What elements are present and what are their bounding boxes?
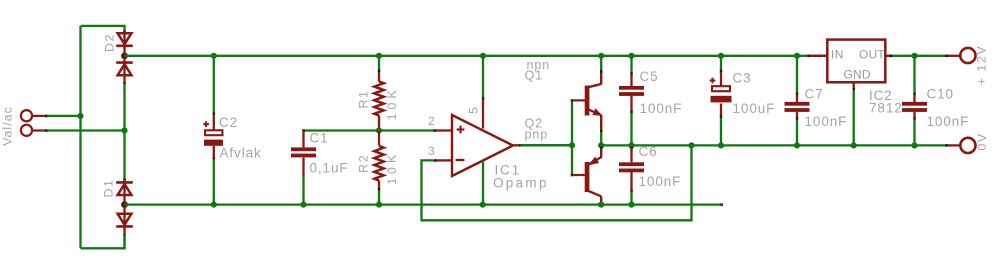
label C10 [927, 87, 954, 102]
label 7812 [869, 101, 903, 116]
label C3 value 100uF [733, 101, 776, 116]
diode D2b (cathode at +node) [116, 63, 133, 76]
label D1 [102, 178, 116, 197]
wire bridge bottom stub [123, 235, 125, 248]
svg-text:0,1uF: 0,1uF [310, 161, 349, 176]
capacitor C2 top plate [205, 130, 222, 135]
transistor Q2 base bar [585, 162, 590, 192]
capacitor C3 top plate [712, 86, 730, 91]
op-amp output stub [513, 144, 572, 147]
op-amp pin 3 stub [434, 159, 452, 162]
label 0V [975, 132, 989, 150]
transistor Q2 emitter [587, 147, 602, 166]
resistor R2 lead top [378, 131, 380, 146]
svg-text:C10: C10 [927, 87, 954, 102]
wire bridge column middle [123, 84, 125, 179]
node pushpull output emitters [598, 142, 604, 148]
label 0,1uF [310, 161, 349, 176]
capacitor C6 top plate [619, 162, 644, 166]
capacitor C3 bottom plate [711, 96, 732, 103]
label C1 [310, 131, 329, 146]
diode D1 lead [123, 178, 126, 236]
label C7 [805, 87, 824, 102]
svg-text:100nF: 100nF [927, 114, 970, 129]
label C5 [640, 69, 659, 84]
label IC2 [869, 88, 893, 103]
op-amp minus symbol [456, 159, 465, 161]
wire bridge bottom green [123, 235, 125, 249]
wire left loop vertical [79, 26, 81, 248]
regulator IC2 GND pin [853, 82, 856, 145]
capacitor C3 plus sign [710, 78, 716, 84]
node C2 top [211, 53, 217, 59]
diode D2a (anode top, cathode at +node) [116, 33, 133, 46]
node C5 bottom [628, 142, 634, 148]
svg-text:C1: C1 [310, 131, 329, 146]
wire bottom rail (- unregulated) [125, 203, 724, 206]
transistor Q2 collector [587, 190, 601, 204]
node C3 top [718, 53, 724, 59]
label IC1 [495, 163, 521, 178]
label OUT pin [859, 48, 885, 62]
node bridge AC midpoint [121, 127, 127, 133]
svg-text:C3: C3 [733, 71, 752, 86]
node Q1 collector top rail [598, 53, 604, 59]
label +12V [975, 45, 989, 85]
label GND pin [844, 68, 871, 82]
wire top rail right of IC2 [886, 55, 947, 57]
capacitor C3 leads [720, 56, 723, 146]
svg-text:+ 12V: + 12V [975, 45, 989, 85]
label pin 2 [428, 114, 436, 128]
capacitor C10 bottom plate [902, 108, 927, 112]
label pin 5 [467, 106, 481, 114]
node R2 bottom [376, 202, 382, 208]
terminal +12V [945, 48, 975, 63]
op-amp power pin 5 [482, 56, 485, 129]
capacitor C7 top plate [785, 102, 810, 106]
node GND pin to 0V line [851, 142, 857, 148]
label Q1 [525, 69, 543, 83]
node pin5 top rail [480, 53, 486, 59]
wire bridge top stub [123, 26, 126, 33]
transistor Q1 base pin [573, 99, 585, 101]
label C7 value 100nF [805, 114, 848, 129]
svg-text:3: 3 [428, 144, 436, 158]
svg-text:Val/ac: Val/ac [1, 106, 15, 146]
label C2 [219, 115, 238, 130]
wire mid node (divider to +input) [304, 129, 436, 131]
terminal 0V [945, 138, 975, 153]
svg-text:C7: C7 [805, 87, 824, 102]
capacitor C2 leads [213, 56, 216, 205]
op-amp pin 2 stub [434, 129, 452, 132]
node C3 bottom [718, 142, 724, 148]
svg-text:GND: GND [844, 68, 871, 82]
label C5 value 100nF [640, 101, 683, 116]
wire top input to left loop [47, 115, 81, 117]
node feedback to 0V line [688, 142, 694, 148]
label pnp [525, 128, 549, 142]
regulator IC2 OUT pin stub [885, 55, 892, 58]
capacitor C1 top plate [291, 147, 316, 151]
svg-text:D1: D1 [102, 178, 116, 197]
capacitor C10 leads [913, 56, 916, 146]
wire bottom input to bridge midpoint [47, 129, 125, 131]
label C6 [639, 144, 658, 159]
svg-text:IN: IN [831, 48, 844, 62]
capacitor C6 bottom plate [619, 169, 644, 173]
node Q2 collector bottom rail [598, 202, 604, 208]
diode D1a (cathode up) [116, 182, 133, 195]
net label Val/ac [1, 106, 15, 146]
node C2 bottom [211, 202, 217, 208]
node R1 top [376, 53, 382, 59]
svg-text:Q1: Q1 [525, 69, 543, 83]
wire left loop bottom [81, 247, 126, 249]
label R2 value 10K [385, 151, 399, 185]
op-amp IC1 body [452, 115, 513, 176]
node C7 top [794, 53, 800, 59]
node opamp V- bottom rail [480, 202, 486, 208]
svg-text:Opamp: Opamp [493, 176, 549, 191]
capacitor C7 bottom plate [785, 108, 810, 112]
svg-text:C5: C5 [640, 69, 659, 84]
node bridge - output J1 [121, 201, 128, 208]
capacitor C10 top plate [902, 102, 927, 106]
label Afvlak [220, 146, 262, 161]
svg-text:D2: D2 [103, 33, 117, 52]
svg-text:100uF: 100uF [733, 101, 776, 116]
label Q2 [525, 117, 543, 131]
label R2 [357, 154, 371, 173]
svg-text:OUT: OUT [859, 48, 885, 62]
node C10 bottom [911, 142, 917, 148]
capacitor C6 leads [630, 147, 633, 205]
svg-text:C2: C2 [219, 115, 238, 130]
node C5 top [628, 53, 634, 59]
capacitor C1 bottom plate [291, 154, 316, 158]
transistor Q1 emitter [589, 109, 603, 145]
transistor Q1 collector [587, 56, 603, 88]
svg-text:10K: 10K [385, 86, 399, 120]
capacitor C5 leads [630, 56, 633, 146]
wire into IC2 IN pin [807, 55, 826, 58]
wire left loop top [81, 25, 126, 27]
wire 0V output line [601, 144, 946, 146]
resistor R1 body [374, 82, 383, 116]
label IN pin [831, 48, 844, 62]
capacitor C5 bottom plate [619, 92, 644, 96]
capacitor C2 bottom plate [204, 140, 223, 146]
regulator IC2 box [827, 40, 885, 83]
label C6 value 100nF [639, 174, 682, 189]
svg-text:R1: R1 [357, 89, 371, 108]
node C6 bottom [628, 202, 634, 208]
capacitor C2 plus sign [203, 121, 209, 127]
svg-text:5: 5 [467, 106, 481, 114]
diode D1b (cathode down) [116, 214, 133, 227]
svg-text:7812: 7812 [869, 101, 903, 116]
node bridge + output J2 [121, 52, 128, 59]
label Opamp [493, 176, 549, 191]
node C1 bottom [300, 202, 306, 208]
resistor R1 lead top [378, 56, 381, 82]
capacitor C5 top plate [619, 86, 644, 90]
resistor R1 lead bottom [378, 116, 380, 131]
svg-text:100nF: 100nF [640, 101, 683, 116]
svg-text:2: 2 [428, 114, 436, 128]
connector pad 1 (top input pin) [21, 110, 48, 121]
node top input junction [77, 113, 83, 119]
label npn [527, 58, 551, 72]
label C3 [733, 71, 752, 86]
svg-text:0V: 0V [975, 132, 989, 150]
svg-text:10K: 10K [385, 151, 399, 185]
wire feedback loop [422, 145, 692, 220]
transistor Q2 base pin [573, 174, 585, 176]
svg-text:100nF: 100nF [805, 114, 848, 129]
wire top rail (+ unregulated) [125, 55, 826, 57]
node C10 top [911, 53, 917, 59]
node bases to opamp output [569, 142, 575, 148]
op-amp power pin bottom [482, 161, 484, 205]
capacitor C7 leads [796, 56, 799, 146]
label R1 value 10K [385, 86, 399, 120]
svg-text:Afvlak: Afvlak [220, 146, 262, 161]
label D2 [103, 33, 117, 52]
wire base column [571, 99, 574, 176]
transistor Q1 base bar [585, 86, 590, 116]
node C7 bottom [794, 142, 800, 148]
resistor R2 lead bottom [378, 181, 381, 205]
connector pad 2 (bottom input pin) [21, 125, 48, 136]
svg-text:C6: C6 [639, 144, 658, 159]
op-amp plus symbol [457, 126, 465, 134]
label pin 3 [428, 144, 436, 158]
svg-text:100nF: 100nF [639, 174, 682, 189]
label C10 value 100nF [927, 114, 970, 129]
label R1 [357, 89, 371, 108]
svg-text:R2: R2 [357, 154, 371, 173]
wire opamp output overlay [521, 144, 573, 146]
diode D2 lead [123, 32, 126, 85]
node divider midpoint [376, 127, 382, 133]
resistor R2 body [374, 146, 383, 181]
svg-text:pnp: pnp [525, 128, 549, 142]
capacitor C1 leads [302, 129, 305, 204]
